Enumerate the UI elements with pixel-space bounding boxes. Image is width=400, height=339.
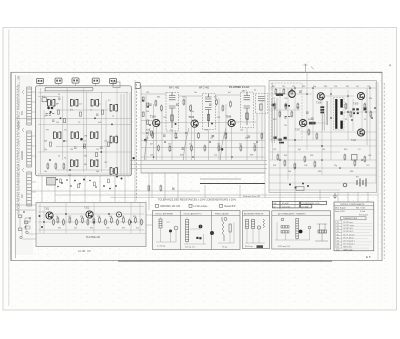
svg-text:R73: R73 — [90, 228, 93, 230]
resistor RB10 — [240, 145, 242, 152]
junction dots B — [146, 132, 258, 158]
svg-text:R56: R56 — [284, 155, 287, 157]
coil detail group box 1-3 — [153, 211, 241, 250]
svg-text:GAMMA: GAMMA — [21, 151, 24, 160]
svg-text:TOLERANCE DES RESISTANCES ± 10: TOLERANCE DES RESISTANCES ± 10% CONDENSA… — [158, 199, 237, 202]
wire tuner mesh horizontals — [36, 93, 131, 175]
long bus wire 2 — [55, 194, 378, 196]
svg-text:C19: C19 — [104, 162, 107, 164]
trimmer dashes — [46, 114, 55, 116]
svg-text:ALTOPARLANTE / TRANSFO: ALTOPARLANTE / TRANSFO — [278, 212, 306, 215]
coil L1 winding — [159, 219, 162, 228]
capacitor blob C1 — [47, 107, 50, 110]
svg-text:C60: C60 — [296, 107, 299, 109]
connector strip J2 — [27, 131, 32, 167]
junction dots D — [43, 213, 132, 223]
svg-text:L6: L6 — [84, 141, 86, 143]
resistor RB22 — [183, 99, 185, 106]
svg-text:T107: T107 — [295, 130, 301, 132]
wire D mesh verticals — [40, 203, 140, 233]
svg-text:40 mW: 40 mW — [282, 203, 289, 205]
coil box4 header line — [243, 214, 270, 216]
capacitor CB1 — [163, 135, 166, 136]
svg-text:1k: 1k — [56, 216, 58, 218]
IF transformer A3 — [91, 99, 98, 106]
IF transformer A5 — [71, 132, 78, 139]
schematic outer frame — [11, 72, 382, 260]
IF transformer A7 — [71, 160, 78, 167]
svg-text:MF 2 460: MF 2 460 — [199, 86, 210, 89]
svg-text:OA 85 stab.: OA 85 stab. — [343, 248, 353, 251]
resistor RB20 — [155, 100, 157, 107]
coil L4 trimmer — [257, 226, 260, 229]
wire B mesh verticals — [146, 95, 262, 160]
resistor pair 56ohm — [352, 107, 366, 114]
IF can MF1 dashed box — [166, 92, 178, 131]
resistor RD8 — [111, 217, 113, 224]
svg-text:25p: 25p — [44, 149, 47, 151]
svg-text:PO: PO — [20, 111, 24, 115]
diode blob D101 — [144, 139, 147, 142]
resistor RB4 — [175, 132, 177, 139]
resistor RB8 — [218, 145, 220, 152]
svg-text:D1: D1 — [254, 90, 256, 92]
coupling transformer K2 — [110, 136, 117, 143]
svg-text:560: 560 — [253, 144, 256, 146]
svg-text:1k8: 1k8 — [146, 111, 149, 113]
svg-text:OM: OM — [84, 136, 88, 138]
diode blob D102 — [221, 148, 224, 151]
resistor RC22 — [291, 88, 293, 95]
legend checkbox 2 — [189, 204, 192, 207]
resistor RA1 — [47, 163, 49, 170]
coupling transformer K1 — [110, 104, 117, 111]
value labels C speckle — [272, 86, 372, 173]
svg-text:OC 615 osc.: OC 615 osc. — [343, 222, 354, 224]
svg-text:T2: T2 — [337, 225, 339, 227]
capacitor blob C5 — [132, 157, 134, 159]
svg-text:PLATINE AM: PLATINE AM — [86, 236, 100, 239]
dash row C left — [285, 117, 291, 119]
svg-text:C76: C76 — [121, 216, 124, 218]
speaker transformer winding — [281, 226, 289, 233]
svg-text:Classe B/P: Classe B/P — [224, 206, 236, 208]
svg-text:C41: C41 — [170, 130, 173, 132]
svg-text:R20: R20 — [205, 130, 208, 132]
svg-text:L4: L4 — [112, 116, 114, 118]
coil L4 winding A — [246, 220, 249, 229]
svg-text:5k6: 5k6 — [175, 138, 178, 140]
svg-text:4k7: 4k7 — [150, 144, 153, 146]
capacitor CB20 — [149, 104, 152, 105]
mini table H left — [272, 201, 299, 208]
svg-text:C78: C78 — [106, 228, 109, 230]
svg-text:OSCILLATEUR PO: OSCILLATEUR PO — [184, 212, 202, 215]
resistor RD3 — [69, 217, 71, 224]
svg-text:0,5 MΩ: 0,5 MΩ — [302, 206, 309, 208]
tuner block box — [36, 86, 132, 176]
coil box divider 2 — [211, 211, 213, 250]
mid resistor M2 — [160, 185, 162, 192]
svg-text:R41: R41 — [272, 86, 275, 88]
svg-text:L11: L11 — [112, 171, 115, 173]
svg-text:9 Volt: 9 Volt — [360, 210, 365, 213]
resistor RB1 — [152, 132, 154, 139]
resistor RC6 — [277, 154, 279, 161]
svg-text:C68: C68 — [304, 165, 307, 167]
wire tuner right bus — [121, 92, 130, 176]
svg-text:22k: 22k — [284, 125, 287, 127]
resistor RC10 — [314, 161, 316, 168]
bus line B4 — [141, 172, 265, 174]
coil L1 wires — [156, 217, 176, 242]
svg-text:OC 74 push 2: OC 74 push 2 — [343, 244, 355, 246]
speaker small circle 1 — [281, 218, 284, 221]
coupling transformer K3 — [110, 168, 117, 175]
svg-text:Vedi nota 3 per LW: Vedi nota 3 per LW — [243, 195, 260, 198]
mixer label box — [42, 98, 47, 102]
wire C mesh horizontals — [269, 88, 377, 190]
small component cluster bottom C — [289, 183, 309, 189]
svg-text:C62: C62 — [273, 149, 276, 151]
thermistor stack — [320, 106, 324, 113]
svg-text:LISTE E COMPOSANTS: LISTE E COMPOSANTS — [340, 203, 365, 206]
coil L3 wires — [218, 222, 234, 243]
resistor RD15 — [87, 219, 89, 226]
resistor RD11 — [129, 219, 131, 226]
terminal TB3 — [72, 78, 79, 83]
connector strip J1 — [27, 87, 32, 125]
svg-text:220p: 220p — [190, 111, 194, 113]
capacitor blob C4 — [80, 138, 83, 141]
svg-text:390: 390 — [84, 156, 87, 158]
svg-text:C1: C1 — [44, 91, 46, 93]
resistor RB21 — [161, 105, 163, 112]
svg-text:1k: 1k — [189, 144, 191, 146]
svg-text:TRANSISTORS: TRANSISTORS — [343, 217, 358, 220]
IF transformer A4 — [54, 132, 61, 139]
svg-text:65+8 sp.: 65+8 sp. — [245, 246, 253, 248]
bus line B3 — [130, 168, 267, 170]
coil box header band — [153, 214, 241, 216]
electrolytic blob C — [343, 183, 347, 187]
wire drops C-to-G — [338, 193, 368, 203]
svg-text:T1: T1 — [337, 222, 339, 224]
svg-text:SCHALTBILD TRANSISTOR MODELL 1: SCHALTBILD TRANSISTOR MODELL 100 — [18, 76, 21, 128]
resistor RD4 — [76, 219, 78, 226]
svg-text:470: 470 — [80, 216, 83, 218]
svg-text:OC 615 FI 1: OC 615 FI 1 — [343, 228, 353, 230]
junction dot D2 — [116, 176, 118, 178]
IF transformer A1 — [48, 99, 55, 106]
svg-text:2k7: 2k7 — [356, 86, 359, 88]
parts table row3 — [335, 210, 365, 213]
frame bottom dark segment — [118, 260, 332, 262]
wire connector-to-A bundle — [15, 92, 36, 210]
resistor RC7 — [284, 160, 286, 167]
output transformer core bar 2 — [340, 99, 342, 108]
svg-text:Serie 1961: Serie 1961 — [335, 211, 346, 213]
svg-text:R70: R70 — [133, 216, 136, 218]
svg-text:PLATINE FI-AF: PLATINE FI-AF — [229, 85, 250, 89]
bus line B2 — [130, 164, 267, 166]
parts table row2 rule — [334, 208, 374, 210]
IF transformer A2 — [71, 99, 78, 106]
resistor RC27 — [308, 129, 310, 136]
bus dark segment 2 — [200, 178, 241, 180]
transistor T108 — [317, 93, 324, 100]
svg-text:C14: C14 — [104, 141, 107, 143]
coil L4 zigzag — [263, 219, 265, 228]
svg-text:T3: T3 — [337, 228, 339, 230]
svg-text:C48: C48 — [150, 155, 153, 157]
transistor T110 — [357, 129, 364, 136]
wire C mesh verticals — [273, 72, 377, 192]
speaker small circle 2 — [308, 226, 311, 229]
wire D-to-E links — [146, 215, 153, 225]
capacitor blob C3 — [50, 111, 52, 113]
parts table row2 — [335, 207, 366, 210]
resistor RC28 — [316, 133, 318, 140]
AM platine box — [36, 203, 146, 247]
terminal TB2 — [55, 78, 62, 83]
output transformer core bar 2b — [340, 111, 342, 114]
resistor RB24 — [216, 99, 218, 106]
output transformer core bar 1 — [335, 99, 337, 129]
capacitor CB3 — [212, 136, 215, 137]
svg-text:120 sp. 0,1: 120 sp. 0,1 — [185, 247, 196, 249]
svg-text:10k: 10k — [282, 86, 285, 88]
svg-text:OC 74 push 1: OC 74 push 1 — [343, 241, 355, 243]
coil L3 winding — [222, 217, 231, 241]
svg-text:56: 56 — [345, 119, 347, 121]
coil L1 blob — [169, 230, 172, 233]
bus line B1 — [130, 160, 267, 162]
terminal TB5 — [110, 78, 117, 83]
mid capacitor M3 — [172, 188, 175, 189]
svg-text:C70: C70 — [366, 165, 369, 167]
svg-text:C66: C66 — [368, 155, 371, 157]
vertical line trio C left — [272, 88, 367, 145]
resistor RA3 — [63, 163, 65, 170]
resistor RB5 — [191, 145, 193, 152]
wire B mesh horizontals — [141, 94, 265, 157]
resistor RC24 — [350, 111, 352, 118]
svg-text:R50: R50 — [273, 119, 276, 121]
svg-text:R28: R28 — [250, 155, 253, 157]
scan texture layer A — [13, 60, 384, 262]
resistor RA2 — [55, 163, 57, 170]
resistor RB3 — [169, 145, 171, 152]
preamp transistor T106b — [289, 91, 296, 98]
coil L3 core blob — [210, 231, 214, 235]
parts sub-table rows — [337, 222, 356, 251]
parts table header rule — [334, 205, 374, 207]
resistor RD12 — [135, 217, 137, 224]
coil L2 blob — [199, 225, 203, 229]
terminal small TB6 — [135, 83, 140, 89]
value labels D speckle — [56, 216, 139, 230]
value labels B row — [150, 144, 256, 146]
svg-text:220: 220 — [168, 144, 171, 146]
frame inner right line — [377, 82, 379, 261]
dark dash label T107 — [309, 122, 316, 125]
coil L4 winding B — [252, 220, 255, 229]
svg-text:R16: R16 — [217, 117, 220, 119]
svg-text:T110: T110 — [351, 140, 357, 142]
svg-text:R12: R12 — [214, 97, 217, 99]
caption dark smudge — [257, 245, 264, 248]
coil box divider 1 — [180, 211, 182, 250]
svg-text:T6: T6 — [337, 237, 339, 239]
speaker wires — [275, 222, 310, 240]
svg-text:0,1: 0,1 — [108, 100, 111, 102]
svg-text:5p6: 5p6 — [96, 171, 99, 173]
svg-text:33k: 33k — [246, 119, 249, 121]
capacitor CC1 — [306, 112, 309, 113]
svg-text:C21: C21 — [68, 175, 71, 177]
switch box below tuner — [47, 178, 56, 186]
svg-text:OSCILL.ANTENNE: OSCILL.ANTENNE — [155, 212, 174, 215]
svg-text:L8: L8 — [58, 156, 60, 158]
resistor RB12 — [261, 133, 263, 140]
svg-text:R60: R60 — [344, 149, 347, 151]
IF transformer A6 — [91, 132, 98, 139]
svg-text:R26: R26 — [180, 155, 183, 157]
svg-text:1,5: 1,5 — [358, 149, 361, 151]
resistor RC8 — [294, 163, 296, 170]
resistor RC26 — [370, 111, 372, 118]
transistor T107 — [299, 119, 306, 126]
resistor RD1 — [57, 217, 59, 224]
svg-text:T4: T4 — [337, 231, 339, 233]
svg-text:T101: T101 — [44, 209, 50, 211]
svg-text:1n5: 1n5 — [214, 155, 217, 157]
resistor RB2 — [158, 145, 160, 152]
svg-text:C7: C7 — [44, 116, 46, 118]
mid tick components — [60, 179, 110, 188]
resistor RC21 — [283, 88, 285, 95]
resistor RB11 — [254, 145, 256, 152]
wire drops B-to-E — [149, 173, 320, 210]
resistor RB7 — [204, 145, 206, 152]
resistor RD7 — [105, 219, 107, 226]
pointer marks left — [22, 90, 30, 229]
svg-text:R62: R62 — [273, 165, 276, 167]
IF can MF3 dashed box — [241, 92, 254, 128]
resistor RB6 — [198, 132, 200, 139]
dashed divider A-B — [136, 84, 138, 200]
svg-text:15k: 15k — [56, 122, 59, 124]
detector coil windings — [258, 97, 265, 111]
svg-text:2k2: 2k2 — [239, 144, 242, 146]
svg-text:R64: R64 — [318, 171, 321, 173]
svg-text:Ø 65 mm 5 Ω: Ø 65 mm 5 Ω — [278, 246, 290, 248]
resistor RC11 — [344, 154, 346, 161]
bottom-left component cluster — [19, 215, 29, 239]
svg-text:ALIM. 9V: ALIM. 9V — [78, 249, 91, 253]
mini table H right text — [302, 203, 320, 208]
wire D mesh horizontals — [38, 207, 144, 231]
svg-text:10n: 10n — [44, 171, 47, 173]
input choke dark — [276, 93, 283, 96]
mid resistor M1 — [148, 185, 150, 192]
svg-text:R47: R47 — [346, 86, 349, 88]
svg-text:GRUNDIG 100 mW: GRUNDIG 100 mW — [160, 206, 181, 208]
resistor RC1 — [274, 103, 276, 110]
resistor RD13 — [141, 219, 143, 226]
svg-text:C44: C44 — [240, 130, 243, 132]
svg-text:C54: C54 — [334, 86, 337, 88]
IF can MF3 windings — [244, 92, 251, 125]
svg-text:LU AF unique: LU AF unique — [194, 205, 209, 208]
resistor RC13 — [364, 156, 366, 163]
svg-text:130: 130 — [70, 149, 73, 151]
capacitor CB2 — [182, 148, 185, 149]
input cap cluster D — [39, 215, 44, 228]
output choke hatched — [318, 230, 327, 233]
svg-text:C74: C74 — [97, 216, 100, 218]
svg-text:PO: PO — [46, 129, 49, 131]
svg-text:T102: T102 — [84, 208, 90, 210]
tuner block inner partition — [116, 86, 118, 176]
svg-text:T109: T109 — [353, 104, 359, 106]
value labels B speckle — [146, 90, 256, 157]
capacitor blob C2 — [51, 107, 54, 110]
dense cluster C left-bottom — [274, 137, 287, 144]
parts sub-table header box — [341, 217, 367, 220]
bottom-left dots — [23, 211, 31, 228]
dark cluster C left — [272, 104, 290, 107]
AM platine inner line — [36, 233, 146, 235]
wire bottom-left drops — [20, 218, 36, 239]
IF can MF2 dashed box — [202, 94, 215, 130]
fuse box bottom C — [296, 187, 304, 191]
junction dot D1 — [83, 179, 85, 181]
svg-text:N. 61-024: N. 61-024 — [359, 215, 369, 217]
svg-text:R24: R24 — [245, 138, 248, 140]
bus dark segment 1 — [200, 183, 265, 185]
svg-text:T105: T105 — [226, 116, 232, 119]
svg-text:10k: 10k — [217, 144, 220, 146]
svg-text:ANTENNE FERRITE: ANTENNE FERRITE — [244, 212, 264, 215]
wire tuner-to-D verticals — [42, 80, 135, 202]
output transformer dashed box — [334, 98, 345, 131]
svg-text:R75: R75 — [122, 228, 125, 230]
svg-text:C9: C9 — [78, 122, 80, 124]
coil L1 trimmer — [174, 226, 178, 230]
junction dots C2 — [279, 87, 371, 169]
resistor RD6 — [99, 217, 101, 224]
resistor RC5 — [297, 103, 299, 110]
transistor T109 — [357, 92, 364, 99]
svg-text:100 mW: 100 mW — [282, 206, 290, 208]
wire A-to-connector long — [16, 117, 37, 119]
driver transformer bar — [327, 101, 328, 125]
svg-text:OC: OC — [20, 194, 24, 198]
junction dots tuner — [49, 117, 113, 171]
block interior washes — [15, 75, 377, 255]
svg-text:R66: R66 — [350, 171, 353, 173]
svg-text:T7: T7 — [337, 241, 339, 243]
curved wire T105 — [221, 128, 227, 160]
svg-text:T5: T5 — [337, 234, 339, 236]
ground symbol C — [333, 193, 337, 199]
resistor RD9 — [117, 219, 119, 226]
svg-text:C35: C35 — [182, 97, 185, 99]
frame top dark segment — [200, 71, 382, 73]
svg-text:C58: C58 — [284, 98, 287, 100]
